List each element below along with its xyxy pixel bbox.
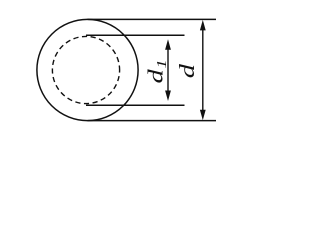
label d1 (rotated) [145,59,170,83]
dimension arrow d (double-headed) [200,20,206,120]
wire: top extension line tangent to outer circle [88,18,217,20]
svg-text:1: 1 [154,59,170,68]
wire: bottom extension line tangent to outer circle [88,120,217,122]
wire: bottom extension line for d1 [86,104,185,106]
wire: top extension line for d1 [86,34,185,36]
svg-text:d: d [176,64,199,79]
outer circle (diameter d) [37,19,138,120]
inner dashed circle (diameter d1) [52,36,119,103]
dimension arrow d1 (double-headed) [165,39,171,101]
svg-text:d: d [145,69,168,84]
